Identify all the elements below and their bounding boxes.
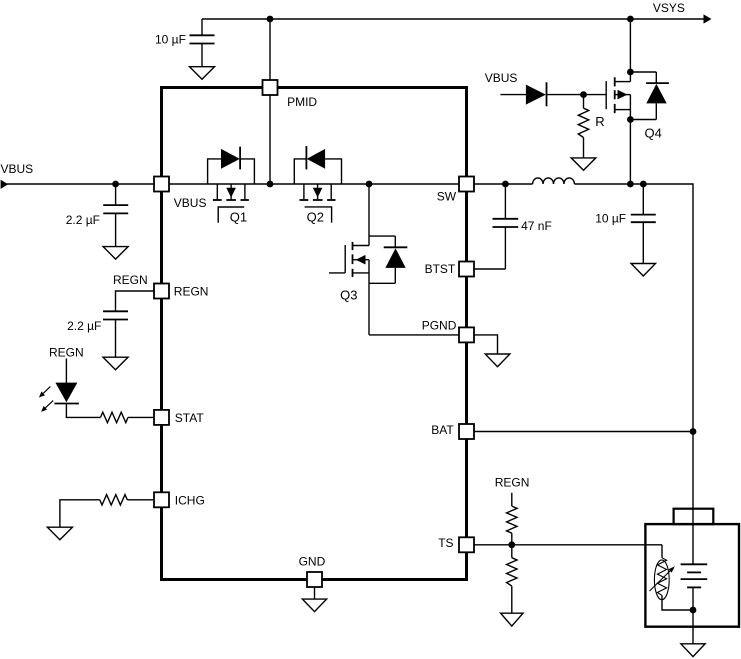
transistor Q4 source lead <box>629 95 631 184</box>
transistor Q3 channel bars <box>352 242 354 277</box>
svg-text:Q4: Q4 <box>645 125 662 140</box>
pin square PMID <box>263 80 278 95</box>
svg-text:Q1: Q1 <box>230 209 247 224</box>
thermistor lead from TS wire <box>661 545 663 558</box>
node: top rail / Q4 drain junction <box>627 16 634 23</box>
transistor Q2 body-diode cathode bar <box>305 146 307 169</box>
transistor Q4 body-diode anode lead <box>655 103 657 119</box>
pin square ICHG <box>154 492 169 507</box>
wire VBUS stub to diode <box>500 94 526 96</box>
ground (below VBUS cap) <box>103 247 128 260</box>
transistor Q3 body-diode loop top <box>369 235 395 237</box>
battery cell plate short 2 <box>687 586 701 588</box>
svg-text:GND: GND <box>299 554 326 568</box>
wire inductor to right rail <box>574 184 693 564</box>
transistor Q3 drain lead <box>368 184 370 246</box>
transistor Q3 body-diode cathode bar <box>384 246 408 248</box>
pin square SW <box>459 177 474 192</box>
pin square GND <box>307 572 322 587</box>
wire battery negative lead <box>692 587 694 643</box>
pin square BTST <box>459 262 474 277</box>
inductor L1 <box>533 178 575 184</box>
svg-text:PGND: PGND <box>422 319 457 333</box>
wire GND pin to ground <box>314 587 316 599</box>
transistor Q1 body-diode loop <box>208 159 221 184</box>
node: SW out / 10uF junction <box>640 181 647 188</box>
thermistor zigzag <box>657 558 666 596</box>
svg-text:VSYS: VSYS <box>653 1 685 15</box>
transistor Q1 body-diode cathode bar <box>239 147 241 170</box>
capacitor C_SYS 10 uF top lead <box>642 184 644 215</box>
transistor Q3 body arrow <box>354 255 370 265</box>
wire junction to resistor R <box>583 95 585 109</box>
wire TS node to lower resistor <box>511 545 513 558</box>
transistor Q4 body-diode cathode lead <box>655 72 657 83</box>
transistor Q3 source contact <box>353 272 370 274</box>
capacitor C_SYS 10 uF bottom lead <box>642 222 644 263</box>
node: TS divider junction <box>508 541 515 548</box>
battery pack box <box>645 524 739 627</box>
svg-text:2.2 µF: 2.2 µF <box>66 213 100 227</box>
diode D2 triangle <box>526 85 546 105</box>
wire BAT pin to battery <box>474 431 693 433</box>
node: SW / 47nF junction <box>502 181 509 188</box>
thermistor bottom lead <box>662 596 693 611</box>
svg-text:Q3: Q3 <box>340 287 357 302</box>
svg-text:REGN: REGN <box>49 345 84 359</box>
ground (ICHG) <box>47 527 72 540</box>
svg-text:BTST: BTST <box>425 262 456 276</box>
capacitor C_REGN 2.2 uF plates <box>103 310 128 312</box>
battery pack tab <box>674 509 714 524</box>
capacitor C_VBUS 2.2 uF bottom lead <box>115 213 117 246</box>
wire Q3 source to PGND pin <box>369 334 460 336</box>
LED D1 emission arrow 2 <box>41 401 53 412</box>
ground (TS divider) <box>501 613 523 626</box>
transistor Q3 body-diode anode lead <box>394 268 396 283</box>
transistor Q1 body arrow <box>226 184 236 199</box>
transistor Q2 body-diode triangle <box>307 149 325 169</box>
transistor Q4 body-diode loop top <box>630 71 656 73</box>
wire lower resistor to ground <box>511 586 513 613</box>
wire diode to Q4 gate <box>547 94 607 96</box>
LED D1 anode lead <box>65 359 67 384</box>
node: Q4 drain / diode junction <box>627 69 634 76</box>
resistor R_TS_upper <box>507 506 517 533</box>
node: BAT junction <box>690 428 697 435</box>
svg-text:VBUS: VBUS <box>485 71 518 85</box>
transistor Q4 gate bar <box>605 81 607 109</box>
pin square REGN <box>154 284 169 299</box>
capacitor C_BTST 47 nF bottom lead <box>504 227 506 269</box>
capacitor C_VBUS 2.2 uF top lead <box>115 184 117 205</box>
capacitor C_PMID 10 uF plates <box>190 34 215 36</box>
ground (battery) <box>681 644 705 657</box>
battery cell plate short 1 <box>687 571 701 573</box>
capacitor C_BTST 47 nF plates <box>493 218 519 220</box>
wire PMID vertical <box>269 19 271 184</box>
ground (GND pin) <box>302 599 326 612</box>
wire resistor R to ground <box>583 138 585 158</box>
svg-text:Q2: Q2 <box>307 209 324 224</box>
ground (below 10 uF) <box>190 67 215 80</box>
wire TS pin to thermistor <box>474 544 662 546</box>
transistor Q4 channel bars <box>614 77 616 113</box>
battery cell plate long 1 <box>681 563 708 565</box>
transistor Q4 body-diode cathode bar <box>646 82 669 84</box>
capacitor C_PMID 10 uF top lead <box>201 19 203 35</box>
wire LED cathode to STAT <box>66 404 100 418</box>
transistor Q2 body arrow <box>313 184 323 199</box>
wire ICHG pin to resistor <box>127 499 154 501</box>
svg-text:REGN: REGN <box>174 285 209 299</box>
transistor Q3 drain contact <box>353 245 370 247</box>
transistor Q2 body-diode loop <box>294 159 306 184</box>
node: top rail / PMID junction <box>267 16 274 23</box>
wire upper resistor to TS node <box>511 533 513 545</box>
svg-text:PMID: PMID <box>287 95 317 109</box>
transistor Q1 gate <box>218 207 244 223</box>
thermistor arrow <box>650 566 675 591</box>
wire resistor to ground <box>60 500 100 527</box>
transistor Q2 source leg <box>330 184 332 199</box>
transistor Q1 body-diode triangle <box>221 149 240 169</box>
wire REGN to upper resistor <box>511 493 513 506</box>
VBUS input arrow <box>1 180 9 189</box>
transistor Q1 drain leg <box>216 184 218 199</box>
transistor Q3 gate bar <box>344 245 346 273</box>
transistor Q1 source leg <box>244 184 246 199</box>
pin square PGND <box>459 327 474 342</box>
transistor Q4 source contact <box>615 109 631 111</box>
svg-text:REGN: REGN <box>113 273 148 287</box>
wire REGN pin to cap <box>116 291 154 311</box>
svg-text:VBUS: VBUS <box>1 162 34 176</box>
pin square BAT <box>459 424 474 439</box>
wire VBUS input to SW node (main horizontal) <box>7 183 533 185</box>
resistor R <box>578 108 588 137</box>
node: Q2/Q3/SW junction <box>366 181 373 188</box>
svg-text:STAT: STAT <box>175 411 205 425</box>
LED D1 triangle <box>55 383 77 403</box>
capacitor C_VBUS 2.2 uF plates <box>103 204 128 206</box>
transistor Q3 body-diode loop bottom <box>369 282 395 284</box>
svg-text:10 µF: 10 µF <box>155 32 186 46</box>
transistor Q2 channel bars <box>300 199 336 201</box>
node: Q4 source / diode junction <box>627 116 634 123</box>
LED D1 cathode bar <box>54 403 79 405</box>
pin square TS <box>459 537 474 552</box>
ground (below R) <box>571 158 596 170</box>
transistor Q3 body-diode triangle <box>385 248 405 268</box>
node: VBUS / 2.2uF junction <box>112 181 119 188</box>
node: R / gate junction <box>580 91 587 98</box>
svg-text:BAT: BAT <box>431 423 454 437</box>
transistor Q4 body arrow <box>616 90 631 100</box>
transistor Q4 drain lead <box>629 19 631 82</box>
transistor Q3 source lead <box>368 260 370 335</box>
node: battery negative junction <box>690 607 697 614</box>
capacitor C_BTST 47 nF top lead <box>504 184 506 219</box>
transistor Q2 drain leg <box>303 184 305 199</box>
svg-text:SW: SW <box>437 190 457 204</box>
capacitor C_PMID 10 uF bottom lead <box>201 44 203 67</box>
svg-text:2.2 µF: 2.2 µF <box>67 319 101 333</box>
capacitor C_REGN 2.2 uF bottom lead <box>115 320 117 358</box>
svg-text:TS: TS <box>438 536 453 550</box>
svg-text:10 µF: 10 µF <box>595 211 626 225</box>
wire PGND to ground <box>473 335 498 354</box>
resistor R_ICHG <box>100 495 128 505</box>
svg-text:ICHG: ICHG <box>175 493 205 507</box>
wire BTST pin to 47nF <box>474 268 505 270</box>
battery cell plate long 2 <box>681 578 708 580</box>
transistor Q4 body-diode loop bottom <box>630 119 656 121</box>
transistor Q3 gate lead <box>329 272 345 274</box>
resistor R_TS_lower <box>507 558 517 586</box>
transistor Q4 body-diode triangle <box>646 84 666 104</box>
ground (below 10 uF) <box>631 264 655 277</box>
resistor R_STAT <box>101 412 129 422</box>
svg-text:VBUS: VBUS <box>174 196 207 210</box>
transistor Q1 body-diode loop right <box>240 159 254 184</box>
VSYS arrow <box>704 14 712 23</box>
transistor Q4 drain contact <box>615 81 631 83</box>
transistor Q2 gate <box>305 207 332 223</box>
pin square VBUS <box>154 177 169 192</box>
thermistor ellipse <box>654 560 669 600</box>
diode D2 cathode bar <box>546 82 548 106</box>
capacitor C_SYS 10 uF plates <box>631 214 656 216</box>
svg-text:REGN: REGN <box>495 476 530 490</box>
wire VSYS top rail <box>202 18 705 20</box>
ground (PGND) <box>485 354 510 367</box>
node: PMID internal junction <box>267 181 274 188</box>
transistor Q2 body-diode loop right <box>325 159 341 184</box>
svg-text:R: R <box>595 114 604 129</box>
svg-text:47 nF: 47 nF <box>521 219 552 233</box>
ground (below REGN cap) <box>103 357 128 370</box>
wire resistor to STAT pin <box>128 416 154 418</box>
node: SW out / Q4 source junction <box>627 181 634 188</box>
IC U1 outline <box>162 88 467 580</box>
pin square STAT <box>154 410 169 425</box>
transistor Q3 body-diode cathode lead <box>394 236 396 247</box>
LED D1 emission arrow 1 <box>39 387 50 398</box>
transistor Q1 channel bars <box>213 199 249 201</box>
